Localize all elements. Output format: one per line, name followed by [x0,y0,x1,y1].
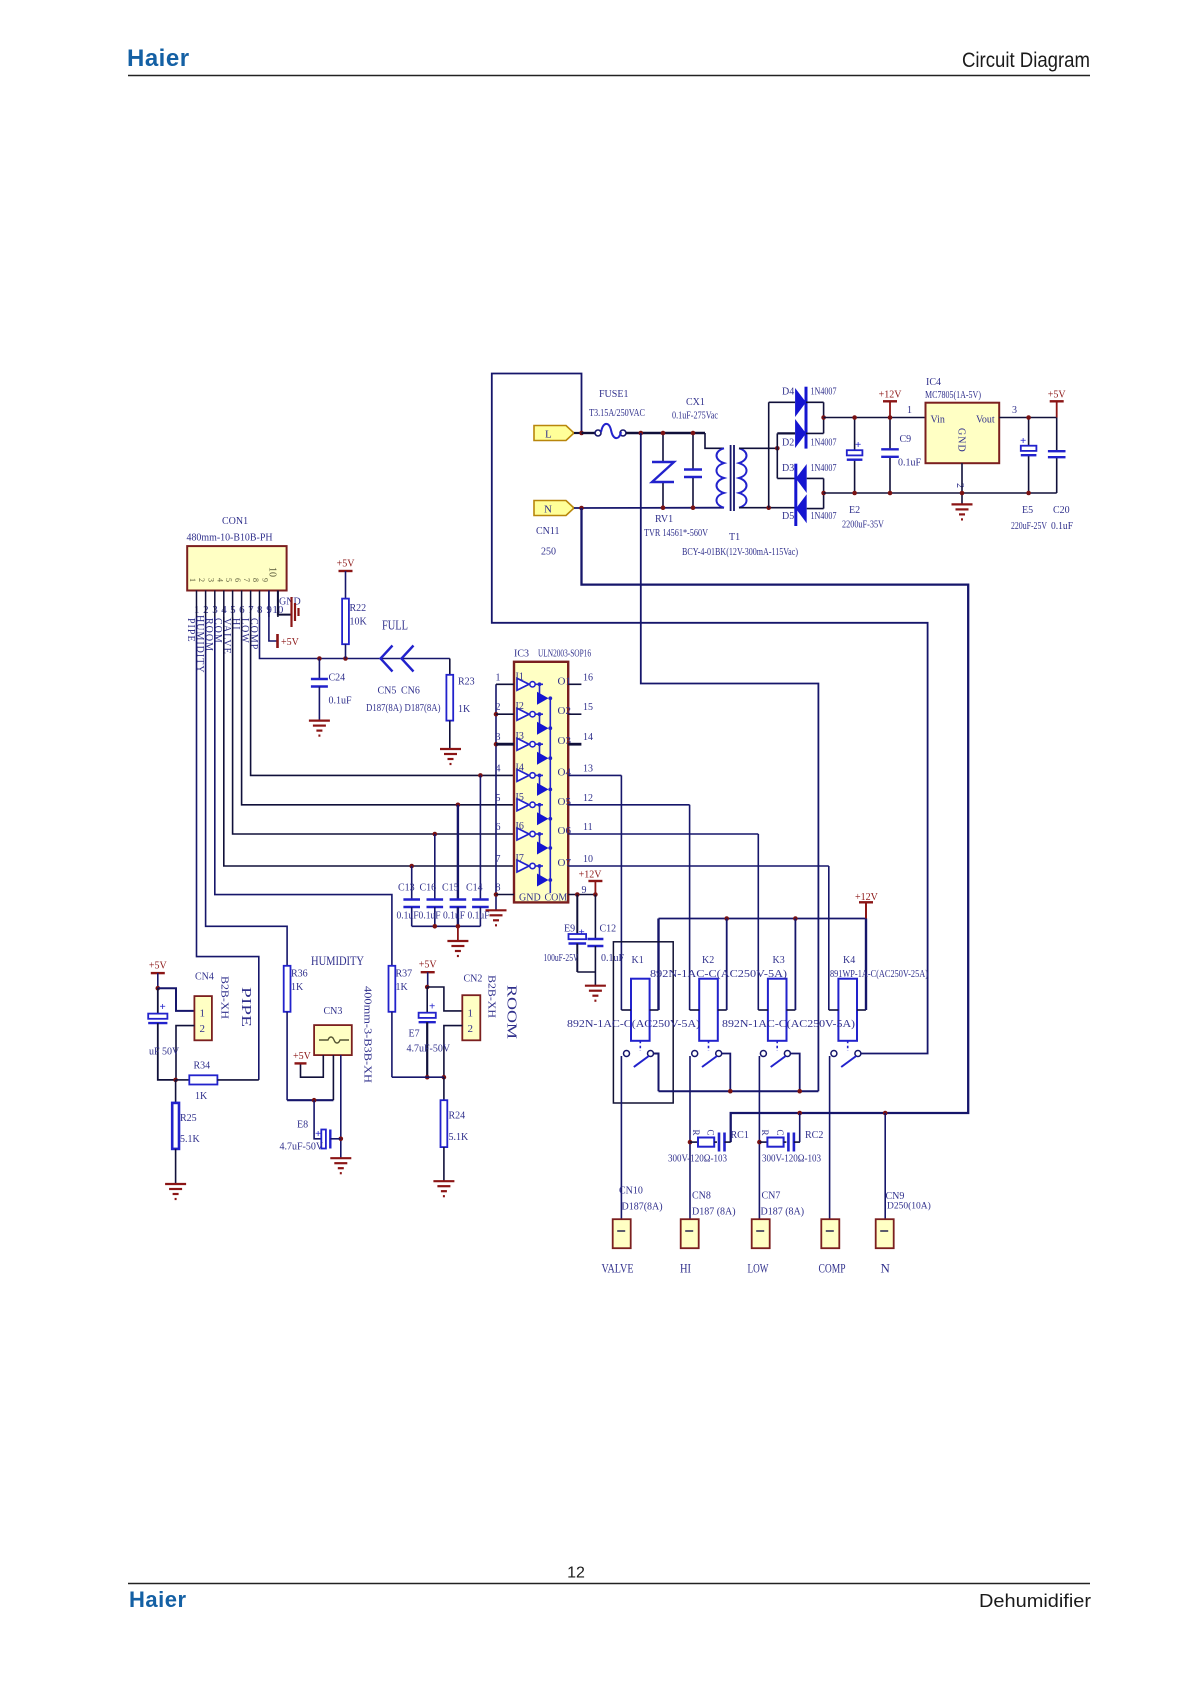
svg-text:1N4007: 1N4007 [811,463,837,474]
svg-text:ROOM: ROOM [504,985,519,1040]
svg-text:VALVE: VALVE [602,1261,634,1276]
svg-text:5: 5 [496,793,501,804]
svg-text:MC7805(1A-5V): MC7805(1A-5V) [925,390,981,401]
svg-text:I3: I3 [516,731,524,742]
svg-text:I5: I5 [516,792,524,803]
svg-text:E5: E5 [1022,505,1033,516]
svg-text:+5V: +5V [293,1051,312,1062]
svg-text:+: + [1020,435,1026,447]
svg-text:O1: O1 [558,675,571,687]
svg-text:7: 7 [242,578,251,582]
svg-text:K3: K3 [773,955,785,966]
svg-text:E9: E9 [564,924,575,935]
svg-text:+5V: +5V [149,961,168,972]
svg-text:CN3: CN3 [324,1006,343,1017]
svg-text:5.1K: 5.1K [449,1132,470,1143]
svg-text:1: 1 [188,578,197,582]
svg-text:D187 (8A): D187 (8A) [692,1207,736,1218]
svg-text:K1: K1 [632,955,644,966]
svg-text:CN8: CN8 [692,1191,711,1202]
svg-text:4.7uF-50V: 4.7uF-50V [280,1142,324,1153]
svg-text:1K: 1K [291,982,304,993]
svg-text:1: 1 [496,672,501,683]
svg-text:I1: I1 [516,671,524,682]
svg-text:+: + [315,1128,321,1140]
svg-text:R24: R24 [449,1111,466,1122]
svg-text:E8: E8 [297,1120,308,1131]
svg-text:891WP-1A-C(AC250V-25A): 891WP-1A-C(AC250V-25A) [830,969,928,980]
svg-text:LOW: LOW [748,1261,770,1276]
svg-text:R36: R36 [291,969,308,980]
svg-text:I4: I4 [516,762,524,773]
svg-text:CN4: CN4 [195,972,214,983]
svg-text:2: 2 [200,1023,206,1035]
svg-text:O4: O4 [558,766,572,778]
svg-text:3: 3 [206,578,215,582]
svg-text:13: 13 [583,763,593,774]
svg-text:10: 10 [583,854,593,865]
svg-text:HI: HI [680,1261,691,1276]
svg-text:C14: C14 [466,883,483,894]
svg-text:CN9: CN9 [886,1191,905,1202]
svg-text:R37: R37 [396,969,413,980]
svg-text:+5V: +5V [281,637,300,648]
svg-text:1K: 1K [458,704,471,715]
svg-text:D5: D5 [782,511,794,522]
svg-text:1K: 1K [195,1091,208,1102]
svg-text:16: 16 [583,672,593,683]
svg-text:L: L [545,429,552,441]
svg-text:K4: K4 [843,955,855,966]
svg-text:1N4007: 1N4007 [811,438,837,449]
svg-text:220uF-25V: 220uF-25V [1011,521,1048,532]
svg-text:2: 2 [468,1023,474,1035]
svg-text:4.7uF-50V: 4.7uF-50V [407,1044,451,1055]
svg-text:6: 6 [496,822,501,833]
svg-text:300V-120Ω-103: 300V-120Ω-103 [668,1154,727,1165]
svg-text:892N-1AC-C(AC250V-5A): 892N-1AC-C(AC250V-5A) [650,968,787,980]
svg-text:+12V: +12V [855,892,879,903]
svg-text:1: 1 [468,1008,474,1020]
svg-text:+: + [160,1001,166,1013]
svg-text:CN7: CN7 [762,1191,781,1202]
svg-text:I7: I7 [516,853,524,864]
svg-text:4: 4 [496,763,501,774]
svg-text:COMP: COMP [819,1261,846,1276]
svg-text:15: 15 [583,702,593,713]
svg-text:480mm-10-B10B-PH: 480mm-10-B10B-PH [187,533,273,544]
svg-text:2200uF-35V: 2200uF-35V [842,520,885,531]
svg-text:+: + [429,1001,435,1013]
svg-text:COM: COM [545,893,568,904]
svg-text:1N4007: 1N4007 [811,511,837,522]
svg-text:RV1: RV1 [655,514,673,525]
svg-text:C: C [706,1130,716,1136]
svg-text:D3: D3 [782,463,794,474]
svg-text:100uF-25V: 100uF-25V [544,953,580,964]
svg-text:14: 14 [583,732,593,743]
svg-text:D250(10A): D250(10A) [887,1201,931,1212]
svg-text:GND: GND [519,893,541,904]
svg-text:400mm-3-B3B-XH: 400mm-3-B3B-XH [362,986,373,1083]
svg-text:GND: GND [279,597,301,608]
svg-text:892N-1AC-C(AC250V-5A): 892N-1AC-C(AC250V-5A) [567,1018,700,1030]
svg-text:O5: O5 [558,796,572,808]
svg-text:Dehumidifier: Dehumidifier [979,1591,1091,1611]
svg-text:I6: I6 [516,821,524,832]
svg-text:0.1uF: 0.1uF [329,696,353,707]
svg-text:9: 9 [260,578,269,582]
svg-text:Vin: Vin [931,415,945,426]
svg-text:5: 5 [224,578,233,582]
svg-text:O7: O7 [558,857,572,869]
svg-text:2: 2 [954,483,965,488]
svg-text:D187 (8A): D187 (8A) [761,1207,805,1218]
svg-text:COMP: COMP [248,618,259,650]
svg-text:B2B-XH: B2B-XH [486,975,497,1018]
svg-text:C20: C20 [1053,505,1070,516]
svg-text:+5V: +5V [419,960,438,971]
svg-text:2: 2 [197,578,206,582]
svg-text:N: N [881,1261,891,1276]
svg-text:C12: C12 [600,924,617,935]
svg-text:11: 11 [583,822,593,833]
svg-text:10K: 10K [350,617,368,628]
svg-text:B2B-XH: B2B-XH [219,976,230,1019]
svg-text:0.1uF0.1uF 0.1uF 0.1uF: 0.1uF0.1uF 0.1uF 0.1uF [397,911,490,922]
svg-text:BCY-4-01BK(12V-300mA-115Vac): BCY-4-01BK(12V-300mA-115Vac) [682,547,798,558]
svg-text:12: 12 [567,1565,585,1582]
svg-text:GND: GND [956,428,967,453]
svg-text:FULL: FULL [382,619,408,634]
svg-text:Haier: Haier [127,45,190,72]
svg-text:1: 1 [200,1008,206,1020]
svg-text:0.1uF: 0.1uF [1051,521,1073,532]
svg-text:D187(8A): D187(8A) [366,703,402,714]
svg-text:uF 50V: uF 50V [149,1047,180,1058]
svg-text:E7: E7 [409,1029,420,1040]
svg-text:HUMIDITY: HUMIDITY [311,953,364,968]
svg-text:K2: K2 [702,955,714,966]
svg-text:O2: O2 [558,705,571,717]
svg-text:Vout: Vout [976,415,995,426]
svg-text:O6: O6 [558,825,572,837]
svg-text:1N4007: 1N4007 [811,387,837,398]
svg-text:D2: D2 [782,438,794,449]
svg-text:8: 8 [251,578,260,582]
svg-text:250: 250 [541,547,556,558]
svg-text:9: 9 [582,885,587,896]
svg-text:N: N [544,504,552,516]
svg-text:TVR 14561*-560V: TVR 14561*-560V [644,528,709,539]
svg-text:Haier: Haier [129,1587,187,1612]
svg-text:0.1uF: 0.1uF [898,458,922,469]
svg-text:3: 3 [496,732,501,743]
svg-text:1K: 1K [396,982,409,993]
svg-text:+5V: +5V [337,559,356,570]
svg-text:CN10: CN10 [619,1186,643,1197]
svg-text:Circuit Diagram: Circuit Diagram [962,49,1090,72]
svg-text:CX1: CX1 [686,397,705,408]
svg-text:10: 10 [267,567,278,577]
svg-text:R25: R25 [180,1113,197,1124]
svg-text:R22: R22 [350,603,367,614]
svg-text:R23: R23 [458,677,475,688]
svg-text:C24: C24 [329,673,346,684]
svg-text:RC2: RC2 [805,1130,823,1141]
svg-text:0.1uF-275Vac: 0.1uF-275Vac [672,411,718,422]
svg-text:D4: D4 [782,387,794,398]
svg-text:CN11: CN11 [536,526,560,537]
svg-text:2: 2 [496,702,501,713]
svg-text:IC4: IC4 [926,377,941,388]
svg-text:FUSE1: FUSE1 [599,389,628,400]
svg-text:E2: E2 [849,505,860,516]
svg-text:ULN2003-SOP16: ULN2003-SOP16 [538,649,591,660]
svg-text:R34: R34 [194,1061,211,1072]
svg-text:T3.15A/250VAC: T3.15A/250VAC [589,408,645,419]
svg-text:+5V: +5V [1048,389,1067,400]
svg-text:CN2: CN2 [464,974,483,985]
svg-text:C9: C9 [900,434,912,445]
svg-text:300V-120Ω-103: 300V-120Ω-103 [762,1154,821,1165]
svg-text:+12V: +12V [579,870,603,881]
svg-text:R: R [760,1130,770,1136]
svg-text:CN5: CN5 [378,686,397,697]
svg-text:+: + [579,927,585,939]
svg-text:+: + [855,439,861,451]
svg-text:8: 8 [496,883,501,894]
svg-text:+12V: +12V [879,389,903,400]
svg-text:12: 12 [583,793,593,804]
svg-text:IC3: IC3 [514,649,529,660]
svg-text:C13: C13 [398,883,415,894]
svg-text:1: 1 [907,405,912,416]
svg-text:3: 3 [1012,405,1017,416]
svg-text:CON1: CON1 [222,516,248,527]
svg-text:C15: C15 [442,883,459,894]
svg-text:PIPE: PIPE [238,987,253,1027]
svg-text:I2: I2 [516,701,524,712]
svg-text:D187(8A): D187(8A) [405,703,441,714]
svg-text:D187(8A): D187(8A) [622,1202,663,1213]
svg-text:6: 6 [233,578,242,582]
svg-text:T1: T1 [729,532,740,543]
svg-text:R: R [691,1130,701,1136]
svg-text:C: C [775,1130,785,1136]
svg-text:C16: C16 [420,883,437,894]
svg-text:5.1K: 5.1K [180,1134,201,1145]
svg-text:892N-1AC-C(AC250V-5A): 892N-1AC-C(AC250V-5A) [722,1018,855,1030]
svg-text:RC1: RC1 [731,1130,749,1141]
svg-text:CN6: CN6 [401,686,420,697]
svg-text:4: 4 [215,578,224,582]
svg-text:7: 7 [496,854,501,865]
